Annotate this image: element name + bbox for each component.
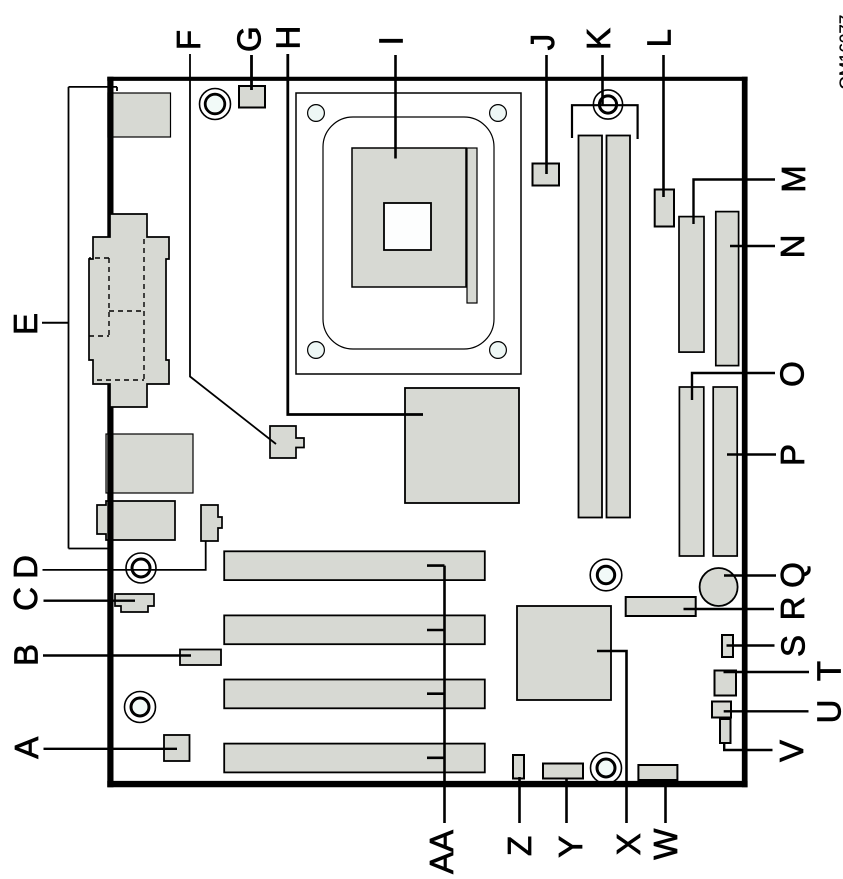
- leader Z: [518, 777, 521, 823]
- leader L: [662, 55, 665, 197]
- connector G target: [239, 86, 265, 108]
- DIMM socket 1 (K group): [579, 136, 603, 518]
- CPU heatsink hole bottom-right: [490, 342, 507, 359]
- connector V target: [720, 719, 731, 743]
- svg-text:M: M: [775, 165, 812, 193]
- svg-text:H: H: [270, 26, 307, 50]
- leader T: [724, 671, 810, 673]
- connector A target: [164, 735, 190, 761]
- bracket K over DIMM sockets: [572, 105, 638, 139]
- svg-text:W: W: [647, 828, 684, 860]
- CPU socket center hole: [384, 203, 431, 250]
- CPU socket assembly I: rounded inner frame: [323, 117, 494, 349]
- back panel connector top (part of E group): [108, 93, 171, 137]
- chipset H target: [405, 388, 519, 503]
- connector J target: [533, 164, 560, 186]
- leader Y: [565, 778, 568, 824]
- leader X: [597, 651, 627, 823]
- svg-text:D: D: [7, 555, 44, 579]
- svg-text:N: N: [774, 235, 811, 259]
- connector T target: [715, 671, 737, 696]
- CPU heatsink hole top-right: [490, 105, 507, 122]
- svg-text:X: X: [610, 833, 647, 855]
- mounting hole near Q: [590, 559, 622, 591]
- leader B: [43, 654, 191, 656]
- PCI slot 4 (AA group): [224, 744, 485, 773]
- leader S: [727, 644, 775, 646]
- svg-text:F: F: [170, 30, 207, 50]
- connector D target: [201, 505, 222, 541]
- leader C: [44, 600, 136, 602]
- leader V: [724, 743, 772, 750]
- leader R: [684, 608, 775, 610]
- leader AA: [427, 566, 445, 823]
- leader G: [250, 55, 253, 90]
- mounting hole bottom-center: [591, 753, 622, 784]
- svg-text:Z: Z: [501, 836, 538, 856]
- leader K: [601, 55, 604, 105]
- svg-text:G: G: [230, 26, 267, 52]
- PCI slot 2 (AA group): [224, 615, 485, 644]
- CPU heatsink hole top-left: [308, 105, 325, 122]
- svg-text:S: S: [774, 635, 811, 657]
- chip X target: [517, 606, 611, 700]
- leader O: [692, 373, 775, 400]
- connector B target: [180, 650, 221, 666]
- leader E: [42, 322, 69, 324]
- svg-text:U: U: [811, 700, 843, 724]
- audio connector (part of E group): [97, 501, 175, 540]
- svg-text:B: B: [8, 644, 45, 666]
- svg-text:P: P: [774, 444, 811, 466]
- svg-text:V: V: [773, 740, 810, 762]
- svg-text:Y: Y: [552, 836, 589, 858]
- CPU heatsink hole bottom-left: [308, 342, 325, 359]
- leader U: [724, 710, 809, 712]
- connector S target: [722, 635, 733, 657]
- leader H: [288, 54, 423, 415]
- connector F target: [270, 426, 304, 458]
- connector L target: [655, 190, 674, 227]
- svg-text:A: A: [8, 737, 45, 759]
- svg-text:E: E: [7, 313, 44, 335]
- connector U target: [712, 702, 731, 718]
- connector C target: [115, 594, 154, 612]
- svg-text:R: R: [774, 597, 811, 621]
- CPU socket assembly I: outer retention frame: [296, 93, 521, 374]
- mounting hole near A: [125, 692, 156, 723]
- connector M target: [679, 217, 704, 353]
- svg-text:I: I: [372, 36, 409, 45]
- leader P: [727, 453, 776, 455]
- LAN connector (part of E group): [106, 434, 193, 493]
- svg-text:L: L: [641, 29, 678, 47]
- battery Q target: [700, 568, 738, 606]
- leader N: [730, 245, 775, 247]
- mounting hole top-left: [200, 89, 231, 120]
- back panel stacked connector (part of E group): [89, 214, 169, 407]
- leader J: [545, 55, 548, 174]
- svg-text:AA: AA: [423, 830, 460, 874]
- leader F: [190, 54, 276, 444]
- connector Y target: [543, 764, 583, 779]
- svg-text:Q: Q: [774, 562, 811, 588]
- connector W target: [638, 765, 677, 780]
- connector N target: [716, 212, 739, 366]
- leader W: [664, 779, 667, 823]
- connector Z target: [513, 755, 524, 779]
- PCI slot 1 (AA group): [224, 551, 485, 580]
- board outline: [107, 77, 747, 788]
- leader I: [394, 55, 397, 159]
- leader D: [43, 541, 206, 570]
- mounting hole near DIMM top: [593, 90, 622, 119]
- svg-text:OM16977: OM16977: [836, 15, 843, 90]
- mounting hole near D: [126, 553, 156, 583]
- leader M: [694, 180, 776, 225]
- svg-text:K: K: [580, 28, 617, 50]
- DIMM socket 2 (K group): [607, 136, 631, 518]
- svg-text:J: J: [524, 34, 561, 51]
- connector P target: [713, 387, 737, 556]
- svg-text:T: T: [811, 661, 843, 681]
- dashed internals of stacked connector: [89, 239, 144, 380]
- bracket E: [69, 87, 118, 549]
- PCI slot 3 (AA group): [224, 680, 485, 709]
- svg-text:C: C: [7, 587, 44, 611]
- CPU socket lever bar: [467, 148, 477, 303]
- connector O target: [679, 387, 703, 556]
- leader A: [44, 748, 178, 750]
- svg-text:O: O: [774, 361, 811, 387]
- connector R target: [626, 597, 696, 616]
- leader Q: [724, 574, 776, 576]
- CPU socket body I: [352, 148, 466, 287]
